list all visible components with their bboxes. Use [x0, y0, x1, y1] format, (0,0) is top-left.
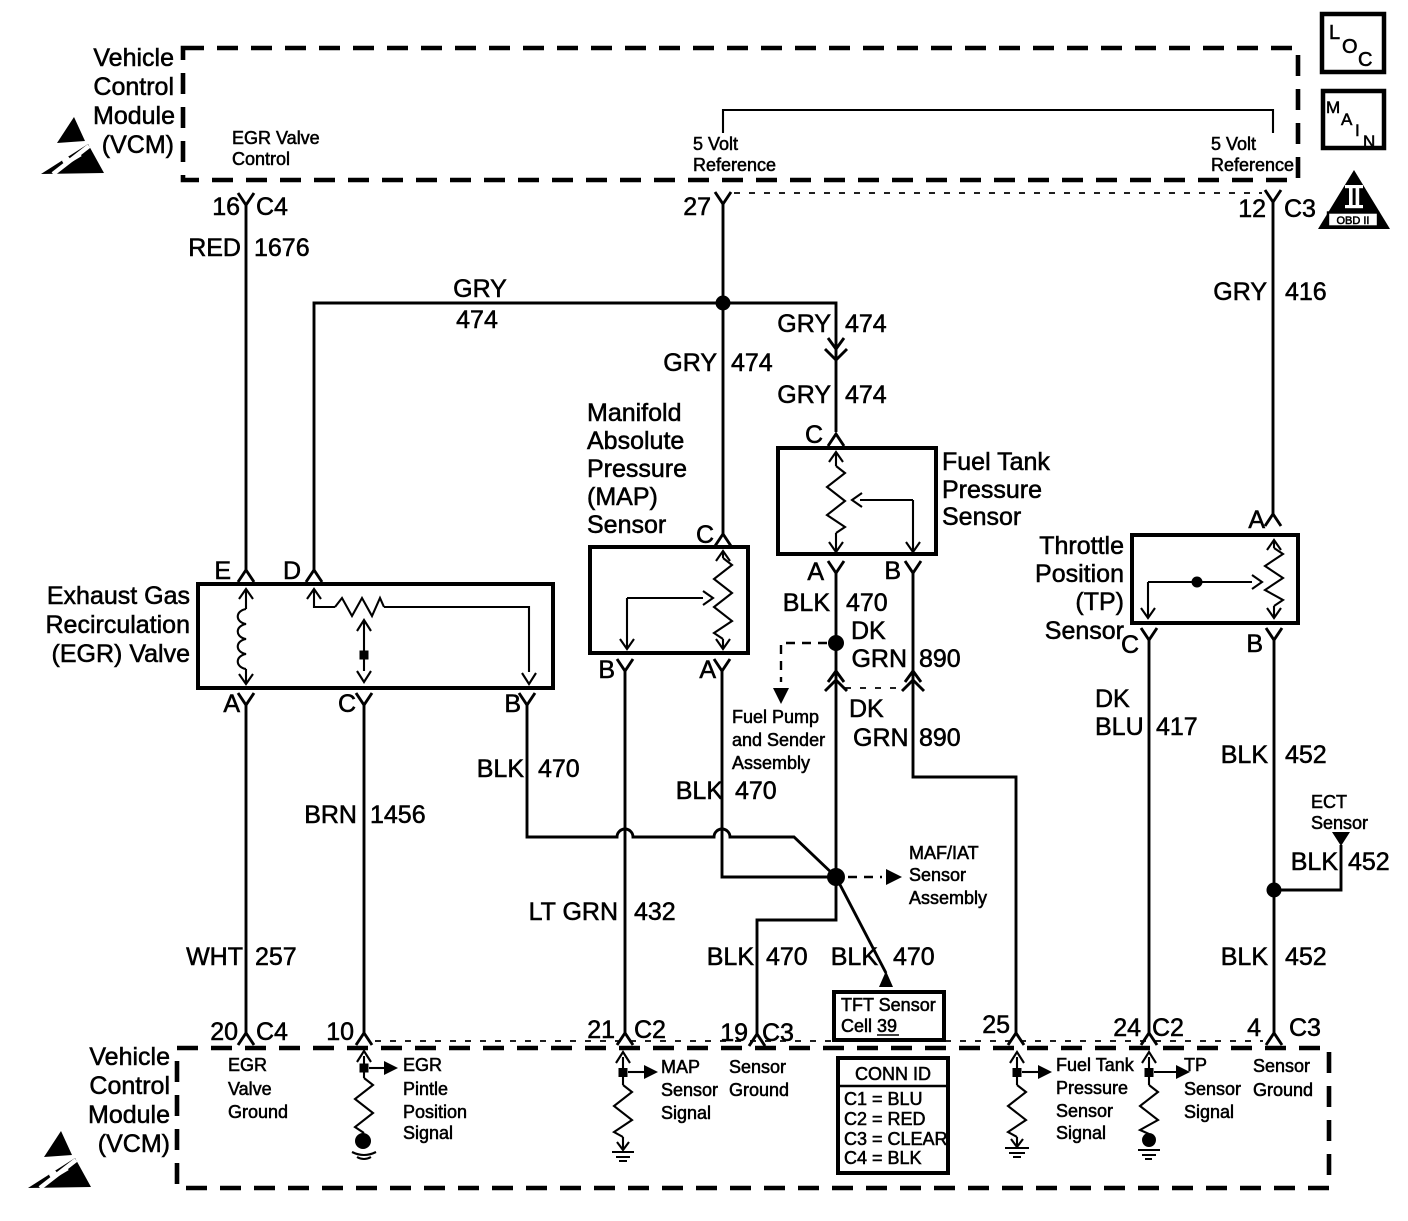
wire BLK 470 (FTP A down): [783, 573, 888, 877]
TP wiper: [1141, 575, 1262, 618]
svg-text:BLK: BLK: [783, 589, 831, 617]
OBD II triangle symbol: [1318, 170, 1390, 229]
svg-text:GRY: GRY: [777, 381, 831, 409]
svg-text:GRY: GRY: [777, 310, 831, 338]
svg-text:C4 = BLK: C4 = BLK: [844, 1148, 922, 1168]
svg-text:Sensor: Sensor: [942, 503, 1021, 531]
svg-text:C2: C2: [1152, 1014, 1184, 1042]
svg-text:Sensor: Sensor: [661, 1080, 718, 1100]
wire WHT 257 (EGR A to pin 20): [186, 705, 297, 1033]
wire GRY 474 vertical (pin27 to MAP C): [663, 204, 773, 534]
pin 19 C3: [720, 1019, 794, 1047]
TP pin B: [1246, 628, 1282, 658]
svg-text:E: E: [214, 557, 231, 585]
MAP pin B: [598, 656, 633, 684]
wire BLK 470 (junction to pin 19): [707, 877, 836, 1035]
svg-text:C: C: [1121, 631, 1139, 659]
TP pin C: [1121, 628, 1157, 659]
ESD symbol (bottom left): [28, 1131, 91, 1188]
svg-text:and Sender: and Sender: [732, 730, 825, 750]
EGR Valve Control label: [232, 128, 320, 169]
svg-text:Fuel Tank: Fuel Tank: [1056, 1055, 1135, 1075]
TP sensor box: [1132, 535, 1298, 623]
svg-text:C: C: [338, 690, 356, 718]
svg-text:BLK: BLK: [1291, 848, 1339, 876]
svg-text:Sensor: Sensor: [587, 511, 666, 539]
svg-text:Valve: Valve: [228, 1079, 272, 1099]
svg-text:C2: C2: [634, 1016, 666, 1044]
svg-text:890: 890: [919, 724, 961, 752]
pin 21 C2: [587, 1016, 666, 1045]
MAP resistor: [714, 551, 732, 649]
svg-text:Signal: Signal: [661, 1103, 711, 1123]
Sensor Ground label (pin 19): [729, 1057, 789, 1100]
svg-text:GRY: GRY: [1213, 278, 1267, 306]
svg-text:27: 27: [683, 193, 711, 221]
svg-text:DK: DK: [851, 617, 886, 645]
svg-text:ECT: ECT: [1311, 792, 1347, 812]
svg-text:A: A: [1248, 506, 1265, 534]
svg-text:C: C: [805, 421, 823, 449]
connector dashed line bottom pins: [375, 1040, 1263, 1042]
VCM module dashed box (top): [183, 48, 1298, 180]
svg-text:24: 24: [1113, 1014, 1141, 1042]
wire LT GRN 432 (MAP B to pin 21): [529, 671, 676, 1033]
svg-text:EGR: EGR: [403, 1055, 442, 1075]
TFT Sensor Cell 39 box: [834, 992, 944, 1040]
svg-text:Pressure: Pressure: [942, 476, 1042, 504]
svg-text:5 Volt: 5 Volt: [1211, 134, 1256, 154]
EGR valve box: [198, 584, 553, 688]
svg-text:Absolute: Absolute: [587, 427, 684, 455]
svg-text:Pintle: Pintle: [403, 1079, 448, 1099]
svg-text:Sensor: Sensor: [1184, 1079, 1241, 1099]
CONN ID box: [838, 1058, 948, 1173]
pin 4 C3: [1247, 1014, 1321, 1045]
inline connector on BLK 470: [825, 671, 847, 691]
Fuel Tank Pressure Sensor box: [778, 448, 936, 554]
svg-text:EGR: EGR: [228, 1055, 267, 1075]
EGR pintle position signal pin circuit: [352, 1051, 398, 1159]
svg-text:(EGR) Valve: (EGR) Valve: [52, 640, 190, 668]
svg-text:(VCM): (VCM): [98, 1130, 170, 1158]
wire BLK 470 (MAP A to junction): [676, 671, 830, 877]
svg-text:474: 474: [845, 381, 887, 409]
svg-text:890: 890: [919, 645, 961, 673]
MAP sensor box: [590, 547, 748, 653]
svg-text:BRN: BRN: [304, 801, 357, 829]
label DK GRN 890 (upper): [851, 617, 961, 673]
EGR valve label: [45, 582, 190, 668]
svg-text:1456: 1456: [370, 801, 426, 829]
svg-text:TP: TP: [1184, 1055, 1207, 1075]
5 Volt Reference label (left): [693, 134, 776, 175]
main junction node BLK 470: [827, 868, 845, 886]
Fuel Tank Pressure Sensor Signal label: [1056, 1055, 1135, 1143]
inline connector on GRY 474: [825, 338, 847, 360]
svg-text:Control: Control: [232, 149, 290, 169]
svg-text:Sensor: Sensor: [729, 1057, 786, 1077]
EGR solenoid coil: [238, 589, 253, 684]
svg-text:D: D: [283, 557, 301, 585]
pin 20 C4: [210, 1018, 288, 1046]
svg-text:(TP): (TP): [1075, 588, 1124, 616]
svg-text:Fuel Pump: Fuel Pump: [732, 707, 819, 727]
svg-text:416: 416: [1285, 278, 1327, 306]
svg-text:452: 452: [1285, 943, 1327, 971]
svg-text:GRY: GRY: [663, 349, 717, 377]
MAP pin C: [696, 521, 731, 549]
MAP wiper: [620, 591, 713, 649]
svg-text:10: 10: [326, 1018, 354, 1046]
junction node GRY: [716, 296, 731, 311]
5 volt reference bus (inside VCM): [723, 110, 1273, 133]
pin 12 C3: [1238, 190, 1316, 223]
TP sensor signal pin circuit: [1138, 1052, 1190, 1159]
svg-text:Recirculation: Recirculation: [45, 611, 190, 639]
svg-text:GRN: GRN: [851, 645, 907, 673]
svg-text:257: 257: [255, 943, 297, 971]
svg-text:C: C: [1358, 49, 1372, 71]
svg-text:L: L: [1329, 22, 1340, 44]
svg-text:432: 432: [634, 898, 676, 926]
svg-text:417: 417: [1156, 713, 1198, 741]
svg-text:Sensor: Sensor: [1045, 617, 1124, 645]
svg-text:(VCM): (VCM): [102, 131, 174, 159]
inline connector on DK GRN 890: [902, 671, 924, 691]
svg-text:B: B: [884, 557, 901, 585]
MAIN legend box: [1323, 91, 1384, 151]
svg-text:470: 470: [735, 777, 777, 805]
svg-text:BLK: BLK: [707, 943, 755, 971]
svg-text:Manifold: Manifold: [587, 399, 682, 427]
TP Sensor Signal label: [1184, 1055, 1241, 1122]
VCM module dashed box (bottom): [177, 1048, 1329, 1188]
ECT sensor branch: [1274, 792, 1390, 890]
svg-text:Sensor: Sensor: [1311, 813, 1368, 833]
wire GRY 416 (pin12 to TP A): [1213, 202, 1326, 514]
svg-text:(MAP): (MAP): [587, 483, 658, 511]
svg-text:A: A: [1341, 110, 1353, 129]
svg-text:Signal: Signal: [1056, 1123, 1106, 1143]
svg-text:B: B: [598, 656, 615, 684]
FTP pin C: [805, 421, 844, 449]
wire DK BLU 417 (TP C to pin 24): [1095, 640, 1198, 1033]
svg-text:Ground: Ground: [228, 1102, 288, 1122]
MAP sensor label: [587, 399, 687, 539]
MAP pin A: [699, 656, 730, 684]
ESD symbol (top left): [41, 117, 104, 174]
svg-text:Signal: Signal: [1184, 1102, 1234, 1122]
FTP pin B: [884, 557, 921, 585]
Throttle Position sensor label: [1035, 532, 1124, 645]
svg-text:452: 452: [1285, 741, 1327, 769]
svg-text:16: 16: [212, 193, 240, 221]
EGR pin A: [223, 690, 254, 718]
junction node DK GRN: [828, 635, 844, 651]
svg-text:Sensor: Sensor: [909, 865, 966, 885]
TP pin A: [1248, 506, 1281, 534]
svg-text:EGR Valve: EGR Valve: [232, 128, 320, 148]
svg-text:21: 21: [587, 1016, 615, 1044]
svg-text:O: O: [1342, 36, 1358, 58]
svg-text:4: 4: [1247, 1014, 1261, 1042]
svg-text:Sensor: Sensor: [1056, 1101, 1113, 1121]
svg-text:19: 19: [720, 1019, 748, 1047]
svg-text:DK: DK: [1095, 685, 1130, 713]
svg-text:470: 470: [893, 943, 935, 971]
svg-text:5 Volt: 5 Volt: [693, 134, 738, 154]
svg-text:Assembly: Assembly: [732, 753, 810, 773]
connector dashed line pins 27-12: [734, 192, 1262, 194]
wire BLK 470 (EGR B to junction): [477, 705, 836, 877]
EGR pin C: [338, 690, 372, 718]
svg-text:Vehicle: Vehicle: [89, 1043, 170, 1071]
FTP resistor: [827, 452, 845, 552]
svg-text:Assembly: Assembly: [909, 888, 987, 908]
svg-text:452: 452: [1348, 848, 1390, 876]
svg-text:C1 = BLU: C1 = BLU: [844, 1089, 923, 1109]
svg-text:C3: C3: [1289, 1014, 1321, 1042]
wire GRY 474 branch to Fuel Tank Pressure Sensor C: [723, 303, 887, 432]
svg-text:Position: Position: [403, 1102, 467, 1122]
svg-text:C3 = CLEAR: C3 = CLEAR: [844, 1129, 948, 1149]
svg-text:GRN: GRN: [853, 724, 909, 752]
svg-text:TFT Sensor: TFT Sensor: [841, 995, 936, 1015]
svg-text:N: N: [1363, 132, 1375, 151]
svg-text:470: 470: [766, 943, 808, 971]
wire DK GRN 890 (FTP B to pin 25): [849, 573, 1016, 1034]
svg-text:BLK: BLK: [831, 943, 879, 971]
wire RED 1676 (pin16 to EGR E): [188, 205, 309, 570]
svg-text:20: 20: [210, 1018, 238, 1046]
svg-text:12: 12: [1238, 195, 1266, 223]
svg-text:A: A: [807, 558, 824, 586]
VCM label (bottom left): [88, 1043, 170, 1158]
svg-text:MAP: MAP: [661, 1057, 700, 1077]
svg-text:BLK: BLK: [1221, 943, 1269, 971]
svg-text:LT GRN: LT GRN: [529, 898, 618, 926]
EGR Valve Ground label: [228, 1055, 288, 1122]
TP resistor: [1265, 540, 1283, 618]
svg-text:474: 474: [456, 306, 498, 334]
svg-text:C3: C3: [1284, 195, 1316, 223]
Sensor Ground label (pin 4): [1253, 1056, 1313, 1100]
svg-text:C4: C4: [256, 1018, 288, 1046]
svg-text:Reference: Reference: [1211, 155, 1294, 175]
wire BRN 1456 (EGR C to pin 10): [304, 705, 425, 1033]
svg-text:CONN ID: CONN ID: [855, 1064, 931, 1084]
svg-text:C2 = RED: C2 = RED: [844, 1109, 926, 1129]
svg-text:Position: Position: [1035, 560, 1124, 588]
svg-text:C4: C4: [256, 193, 288, 221]
LOC legend box: [1322, 14, 1384, 72]
svg-text:MAF/IAT: MAF/IAT: [909, 843, 979, 863]
pin 10: [326, 1018, 372, 1046]
svg-text:BLK: BLK: [1221, 741, 1269, 769]
svg-text:1676: 1676: [254, 234, 310, 262]
pin 16 C4: [212, 193, 288, 221]
svg-text:C: C: [696, 521, 714, 549]
EGR Pintle Position Signal label: [403, 1055, 467, 1143]
EGR pin B: [504, 690, 535, 718]
FTP wiper: [852, 493, 920, 552]
svg-text:WHT: WHT: [186, 943, 243, 971]
svg-text:GRY: GRY: [453, 275, 507, 303]
svg-text:OBD II: OBD II: [1336, 215, 1369, 227]
FTP pin A: [807, 558, 844, 586]
svg-text:BLK: BLK: [676, 777, 724, 805]
pin 25: [982, 1011, 1024, 1045]
svg-text:Module: Module: [88, 1101, 170, 1129]
EGR potentiometer: [307, 589, 536, 684]
EGR pintle wiper: [357, 620, 371, 682]
svg-text:Ground: Ground: [729, 1080, 789, 1100]
svg-text:BLK: BLK: [477, 755, 525, 783]
svg-text:Throttle: Throttle: [1039, 532, 1124, 560]
svg-text:25: 25: [982, 1011, 1010, 1039]
svg-text:DK: DK: [849, 695, 884, 723]
MAP sensor signal pin circuit: [612, 1052, 658, 1161]
svg-text:Vehicle: Vehicle: [93, 44, 174, 72]
svg-text:Fuel Tank: Fuel Tank: [942, 448, 1050, 476]
EGR pin D: [283, 557, 322, 585]
svg-text:Cell 39: Cell 39: [841, 1016, 897, 1036]
svg-text:Control: Control: [93, 73, 174, 101]
5 Volt Reference label (right): [1211, 134, 1294, 175]
wire BLK 452 (TP B to pin 4): [1221, 640, 1327, 1033]
junction node BLK 452: [1267, 883, 1282, 898]
EGR pin E: [214, 557, 254, 585]
wire GRY 474 horizontal branch to EGR D: [314, 275, 723, 570]
FTP sensor label: [942, 448, 1050, 531]
svg-text:RED: RED: [188, 234, 241, 262]
svg-text:Pressure: Pressure: [587, 455, 687, 483]
VCM label (top left): [93, 44, 175, 159]
pin 24 C2: [1113, 1014, 1184, 1045]
svg-text:I: I: [1355, 121, 1360, 140]
svg-text:Ground: Ground: [1253, 1080, 1313, 1100]
svg-text:Sensor: Sensor: [1253, 1056, 1310, 1076]
svg-text:Reference: Reference: [693, 155, 776, 175]
svg-text:470: 470: [846, 589, 888, 617]
svg-text:Signal: Signal: [403, 1123, 453, 1143]
svg-text:474: 474: [845, 310, 887, 338]
svg-text:B: B: [1246, 630, 1263, 658]
pin 27: [683, 192, 731, 221]
svg-text:Control: Control: [89, 1072, 170, 1100]
svg-text:470: 470: [538, 755, 580, 783]
dashed branch to Fuel Pump and Sender Assembly: [732, 643, 827, 773]
dashed arrow to MAF/IAT Sensor Assembly: [848, 843, 987, 908]
svg-text:474: 474: [731, 349, 773, 377]
svg-text:C3: C3: [762, 1019, 794, 1047]
wire BLK 470 (junction to TFT sensor): [831, 877, 935, 987]
connector dashed line between inline connectors: [845, 687, 903, 689]
svg-text:BLU: BLU: [1095, 713, 1144, 741]
svg-text:Exhaust Gas: Exhaust Gas: [47, 582, 190, 610]
svg-text:Module: Module: [93, 102, 175, 130]
svg-text:M: M: [1326, 98, 1340, 117]
svg-text:Pressure: Pressure: [1056, 1078, 1128, 1098]
fuel tank pressure sensor signal pin circuit: [1005, 1052, 1052, 1157]
MAP Sensor Signal label: [661, 1057, 718, 1123]
